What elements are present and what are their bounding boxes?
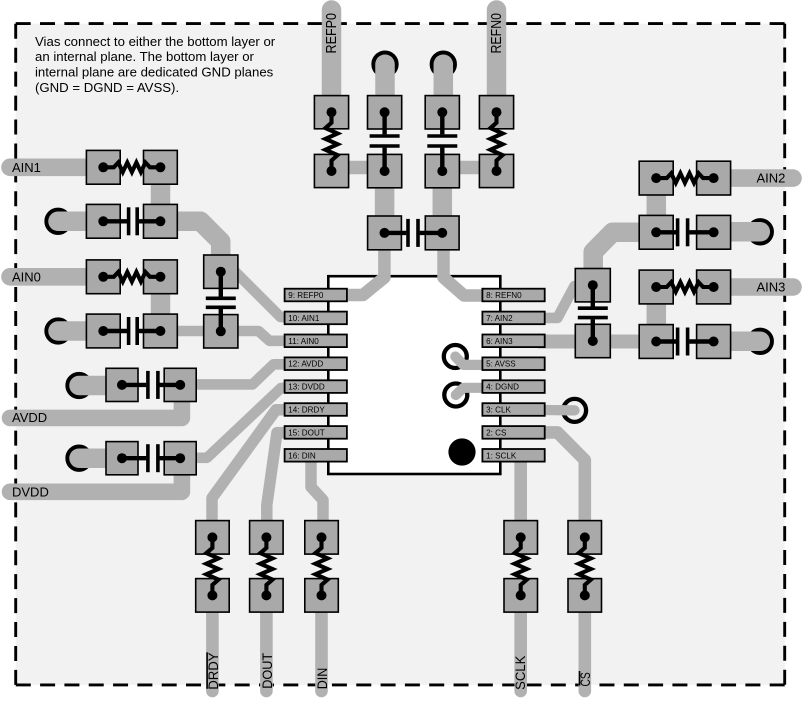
svg-text:15: DOUT: 15: DOUT <box>288 428 324 437</box>
wire REFP0 entry trace <box>322 10 342 98</box>
svg-text:1: SCLK: 1: SCLK <box>486 451 517 460</box>
pin 11 label 11: AIN0 <box>285 335 347 348</box>
svg-text:an internal plane. The bottom: an internal plane. The bottom layer or <box>35 49 255 64</box>
svg-text:2: CS: 2: CS <box>486 428 507 437</box>
wire REFP0 to pin 9 <box>340 242 384 295</box>
via V8 (AIN3 filter C to GND) <box>749 330 772 353</box>
wire AVDD C to pin 12 <box>195 364 294 384</box>
note text <box>35 34 276 95</box>
via V1 (AIN1 filter C to GND) <box>47 210 70 233</box>
svg-text:3: CLK: 3: CLK <box>486 406 511 415</box>
wire AIN2 label stub <box>724 169 793 187</box>
wire SCLK exit trace <box>514 608 527 691</box>
svg-text:AIN3: AIN3 <box>757 280 786 295</box>
wire AIN3 R-to-C vertical <box>647 287 667 342</box>
wire AIN0 label stub <box>10 268 92 286</box>
via V6 (REFN0 filter to GND) <box>432 53 455 76</box>
wire AIN2 R-to-C vertical <box>647 178 667 232</box>
capacitor C11 (AIN2-AIN3 differential) <box>575 269 610 358</box>
wire pin 1 to SCLK resistor <box>514 456 527 526</box>
wire pin 14 to DRDY resistor <box>212 410 294 526</box>
capacitor C5 (REFP0 to GND) <box>368 96 402 188</box>
wire pin 7 to AIN2 diff-cap <box>538 286 584 318</box>
wire CS exit trace <box>578 608 591 691</box>
svg-text:AIN0: AIN0 <box>12 269 41 284</box>
op-amp U1 body (ADC, 16-pin IC outline) <box>328 276 500 474</box>
pin 4 label 4: DGND <box>482 380 544 393</box>
wire pin 6 to AIN3 node <box>538 335 648 349</box>
pin 10 label 10: AIN1 <box>285 312 347 325</box>
resistor R6 (REFN0 series) <box>479 96 513 188</box>
resistor R11 (CS series) <box>568 521 602 613</box>
svg-text:16: DIN: 16: DIN <box>288 451 316 460</box>
svg-text:DOUT: DOUT <box>259 652 275 688</box>
wire AIN0 node to pin 11 <box>177 331 294 341</box>
capacitor C10 (AIN3 to GND) <box>639 325 730 359</box>
pin 2 label 2: CS <box>482 426 544 439</box>
pin 1 marker dot <box>448 438 475 465</box>
pin 1 label 1: SCLK <box>482 449 544 462</box>
resistor R1 (AIN1 series) <box>86 150 177 184</box>
via V10 (DGND to GND plane) <box>444 384 467 407</box>
via V4 (DVDD decoupling C to GND) <box>68 447 91 470</box>
svg-text:SCLK: SCLK <box>512 655 528 690</box>
svg-text:13: DVDD: 13: DVDD <box>288 383 325 392</box>
pin 16 label 16: DIN <box>285 449 347 462</box>
capacitor C2 (AIN0 to GND) <box>86 314 177 348</box>
wire REFN0 entry trace <box>487 10 507 98</box>
via V11 (CLK tied to GND plane) <box>563 399 586 422</box>
svg-text:DVDD: DVDD <box>12 484 49 499</box>
svg-text:6: AIN3: 6: AIN3 <box>486 337 513 346</box>
svg-text:10: AIN1: 10: AIN1 <box>288 314 320 323</box>
wire REFN0 to pin 8 <box>444 242 491 296</box>
svg-text:AIN2: AIN2 <box>757 171 786 186</box>
svg-text:REFP0: REFP0 <box>324 13 340 54</box>
wire AVDD label bar <box>10 396 182 418</box>
via V3 (AVDD decoupling C to GND) <box>68 374 91 397</box>
wire DVDD C to pin 13 <box>195 387 294 458</box>
wire AIN2 node to diff-cap <box>593 232 640 272</box>
via V7 (AIN2 filter C to GND) <box>749 220 772 243</box>
wire AIN0 R-to-C vertical <box>151 277 171 331</box>
pin 7 label 7: AIN2 <box>482 312 544 325</box>
via V9 (AVSS to GND plane) <box>444 345 467 368</box>
resistor R7 (DRDY series) <box>196 521 230 613</box>
pin 8 label 8: REFN0 <box>482 289 544 302</box>
svg-text:AVDD: AVDD <box>12 410 47 425</box>
capacitor C6 (REFN0 to GND) <box>425 96 459 188</box>
pin 9 label 9: REFP0 <box>285 289 347 302</box>
resistor R2 (AIN0 series) <box>86 260 177 294</box>
svg-text:4: DGND: 4: DGND <box>486 383 519 392</box>
pin 5 label 5: AVSS <box>482 357 544 370</box>
wire pin 16 to DIN resistor <box>311 457 323 526</box>
wire pin 2 to CS resistor <box>540 432 585 526</box>
capacitor C1 (AIN1 to GND) <box>86 204 177 238</box>
wire REFP0 node down <box>375 178 395 224</box>
svg-text:(GND = DGND = AVSS).: (GND = DGND = AVSS). <box>35 80 179 95</box>
svg-text:9: REFP0: 9: REFP0 <box>288 291 324 300</box>
svg-text:internal plane are dedicated G: internal plane are dedicated GND planes <box>35 65 274 80</box>
wire DVDD label bar <box>10 470 182 492</box>
resistor R8 (DOUT series) <box>250 521 284 613</box>
svg-text:5: AVSS: 5: AVSS <box>486 360 516 369</box>
svg-text:11: AIN0: 11: AIN0 <box>288 337 319 346</box>
pin 15 label 15: DOUT <box>285 426 347 439</box>
wire AIN1 label stub <box>10 159 92 177</box>
wire DIN exit trace <box>315 608 328 691</box>
svg-text:REFN0: REFN0 <box>489 13 505 54</box>
resistor R3 (AIN2 series) <box>639 161 730 195</box>
wire DOUT exit trace <box>260 608 273 691</box>
svg-text:AIN1: AIN1 <box>12 160 41 175</box>
resistor R4 (AIN3 series) <box>639 270 730 304</box>
resistor R9 (DIN series) <box>305 521 339 613</box>
via V2 (AIN0 filter C to GND) <box>47 320 70 343</box>
pin 14 label 14: DRDY <box>285 403 347 416</box>
wire AIN1 R-to-C vertical <box>151 167 171 221</box>
pin 3 label 3: CLK <box>482 403 544 416</box>
wire AIN1 node to diff-cap <box>177 221 221 263</box>
wire DRDY exit trace <box>206 608 219 691</box>
capacitor C8 (DVDD decoupling) <box>106 442 196 475</box>
svg-text:8: REFN0: 8: REFN0 <box>486 291 522 300</box>
resistor R10 (SCLK series) <box>504 521 538 613</box>
svg-text:7: AIN2: 7: AIN2 <box>486 314 513 323</box>
svg-text:14: DRDY: 14: DRDY <box>288 406 325 415</box>
capacitor C3 (AIN0-AIN1 differential) <box>204 255 238 348</box>
wire REFN0 node down <box>433 178 453 224</box>
resistor R5 (REFP0 series) <box>314 96 348 188</box>
pin 13 label 13: DVDD <box>285 380 347 393</box>
capacitor C4 (AVDD decoupling) <box>106 368 196 401</box>
wire R-to-C link REFN0 <box>454 161 490 175</box>
wire AIN3 label stub <box>724 278 793 296</box>
svg-text:DIN: DIN <box>315 668 330 690</box>
svg-text:Vias connect to either the bot: Vias connect to either the bottom layer … <box>35 34 276 49</box>
via V5 (REFP0 filter to GND) <box>374 53 397 76</box>
capacitor C7 (REFP0-REFN0 differential) <box>368 216 459 250</box>
wire pin 15 to DOUT resistor <box>267 433 294 526</box>
wire AIN1 diff-cap to pin 10 <box>233 270 294 318</box>
capacitor C9 (AIN2 to GND) <box>639 215 730 249</box>
svg-text:12: AVDD: 12: AVDD <box>288 360 323 369</box>
pin 12 label 12: AVDD <box>285 357 347 370</box>
pin 6 label 6: AIN3 <box>482 335 544 348</box>
wire R-to-C link REFP0 <box>340 161 376 175</box>
